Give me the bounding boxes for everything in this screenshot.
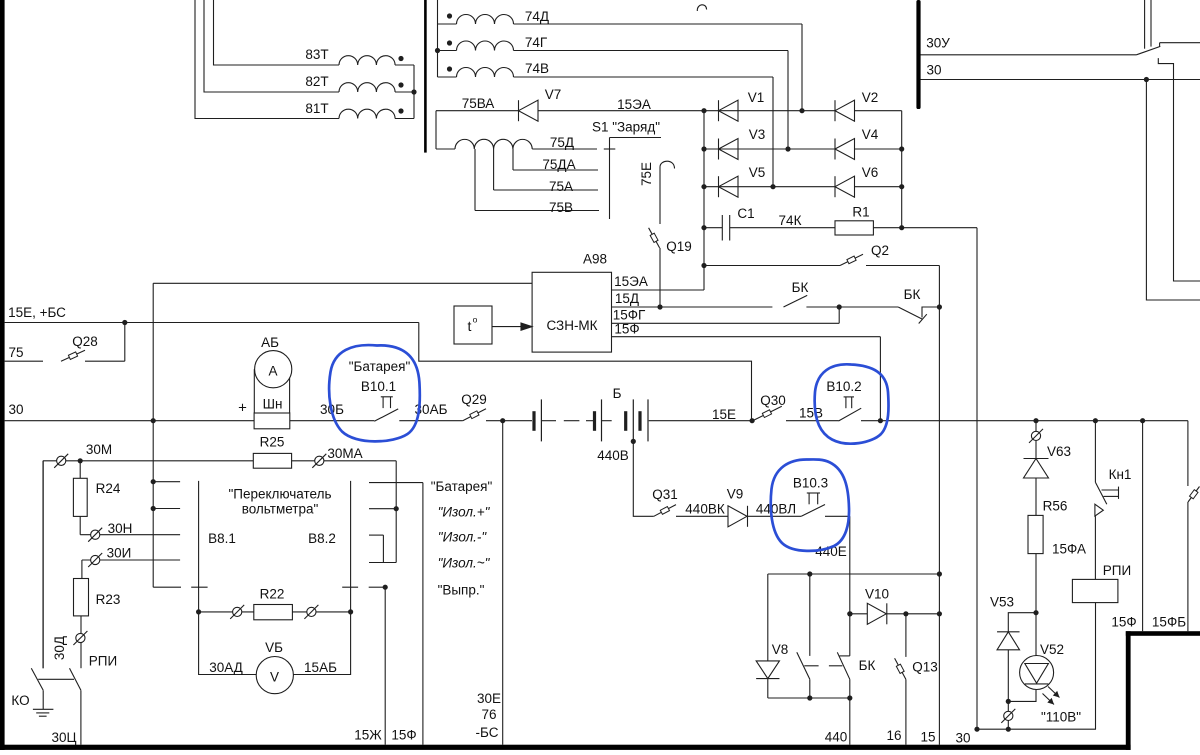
svg-text:Q29: Q29 xyxy=(461,392,487,407)
svg-text:15Ф: 15Ф xyxy=(614,322,639,337)
svg-text:30МА: 30МА xyxy=(327,446,362,461)
svg-text:83Т: 83Т xyxy=(305,47,328,62)
svg-text:V6: V6 xyxy=(862,165,879,180)
svg-text:15В: 15В xyxy=(799,406,823,421)
svg-text:-БС: -БС xyxy=(476,725,499,740)
svg-text:30М: 30М xyxy=(86,442,112,457)
svg-text:30Н: 30Н xyxy=(108,521,133,536)
svg-text:V7: V7 xyxy=(545,87,562,102)
svg-text:15Е: 15Е xyxy=(712,407,736,422)
svg-text:R24: R24 xyxy=(96,481,121,496)
svg-text:А98: А98 xyxy=(583,252,607,267)
svg-text:74К: 74К xyxy=(779,213,802,228)
svg-text:V8: V8 xyxy=(772,642,789,657)
svg-text:440ВК: 440ВК xyxy=(685,502,725,517)
svg-text:В10.2: В10.2 xyxy=(826,379,861,394)
svg-text:Q19: Q19 xyxy=(666,239,692,254)
svg-text:Q28: Q28 xyxy=(72,334,98,349)
svg-text:Q13: Q13 xyxy=(912,660,938,675)
svg-text:440ВЛ: 440ВЛ xyxy=(756,502,796,517)
svg-text:V52: V52 xyxy=(1040,642,1064,657)
svg-text:"Изол.~": "Изол.~" xyxy=(438,556,491,571)
svg-text:15Ф: 15Ф xyxy=(391,728,416,743)
svg-text:В10.3: В10.3 xyxy=(793,476,828,491)
svg-text:БК: БК xyxy=(904,287,921,302)
svg-text:30И: 30И xyxy=(107,546,132,561)
svg-text:"Выпр.": "Выпр." xyxy=(438,583,485,598)
svg-text:75Д: 75Д xyxy=(550,135,574,150)
svg-text:R23: R23 xyxy=(96,592,121,607)
svg-text:75: 75 xyxy=(8,345,23,360)
svg-text:30У: 30У xyxy=(926,36,950,51)
svg-text:В10.1: В10.1 xyxy=(361,379,396,394)
svg-text:30Ц: 30Ц xyxy=(51,730,76,745)
svg-text:16: 16 xyxy=(886,728,901,743)
svg-text:R22: R22 xyxy=(260,586,285,601)
svg-text:S1 "Заряд": S1 "Заряд" xyxy=(592,120,660,135)
svg-text:R25: R25 xyxy=(260,435,285,450)
svg-text:"Батарея": "Батарея" xyxy=(431,479,493,494)
svg-text:75А: 75А xyxy=(549,179,573,194)
svg-text:o: o xyxy=(473,315,478,325)
svg-text:В8.1: В8.1 xyxy=(208,531,236,546)
svg-text:440: 440 xyxy=(825,730,848,745)
svg-text:Q30: Q30 xyxy=(760,393,786,408)
svg-text:75ВА: 75ВА xyxy=(462,96,495,111)
svg-text:75Е: 75Е xyxy=(639,162,654,186)
svg-text:440В: 440В xyxy=(597,448,629,463)
svg-text:V63: V63 xyxy=(1047,444,1071,459)
svg-text:15АБ: 15АБ xyxy=(304,660,337,675)
svg-text:Q2: Q2 xyxy=(871,243,889,258)
svg-text:А: А xyxy=(268,364,277,379)
svg-text:"110В": "110В" xyxy=(1041,710,1081,725)
svg-text:30Е: 30Е xyxy=(477,691,501,706)
svg-text:Кн1: Кн1 xyxy=(1109,467,1132,482)
svg-text:VБ: VБ xyxy=(265,640,283,655)
svg-text:Б: Б xyxy=(613,386,622,401)
svg-text:30АД: 30АД xyxy=(209,660,243,675)
svg-text:82Т: 82Т xyxy=(305,74,328,89)
svg-text:15ЭА: 15ЭА xyxy=(614,274,648,289)
svg-text:V2: V2 xyxy=(862,90,879,105)
svg-text:V9: V9 xyxy=(727,487,744,502)
svg-text:30: 30 xyxy=(955,731,970,746)
svg-text:Шн: Шн xyxy=(263,397,283,412)
svg-text:15Е, +БС: 15Е, +БС xyxy=(8,305,66,320)
svg-text:"Изол.-": "Изол.-" xyxy=(438,530,488,545)
svg-text:"Изол.+": "Изол.+" xyxy=(438,505,491,520)
svg-text:"Переключатель: "Переключатель xyxy=(228,486,331,501)
svg-text:74Г: 74Г xyxy=(525,35,548,50)
svg-text:V5: V5 xyxy=(749,165,766,180)
svg-text:30: 30 xyxy=(926,63,941,78)
svg-text:15ФБ: 15ФБ xyxy=(1152,615,1186,630)
svg-text:75В: 75В xyxy=(549,200,573,215)
svg-text:БК: БК xyxy=(792,280,809,295)
svg-text:"Батарея": "Батарея" xyxy=(349,359,411,374)
svg-text:КО: КО xyxy=(11,693,29,708)
svg-text:R1: R1 xyxy=(852,205,869,220)
svg-text:вольтметра": вольтметра" xyxy=(242,501,319,516)
svg-text:15ФГ: 15ФГ xyxy=(613,308,646,323)
svg-text:t: t xyxy=(468,318,472,334)
svg-text:15Д: 15Д xyxy=(615,291,639,306)
svg-text:V3: V3 xyxy=(749,127,766,142)
svg-text:РПИ: РПИ xyxy=(1103,563,1131,578)
svg-text:15: 15 xyxy=(920,730,935,745)
svg-text:R56: R56 xyxy=(1043,499,1068,514)
svg-text:81Т: 81Т xyxy=(305,101,328,116)
svg-text:V4: V4 xyxy=(862,127,879,142)
svg-text:V: V xyxy=(270,670,279,685)
svg-text:76: 76 xyxy=(481,707,496,722)
svg-text:Q31: Q31 xyxy=(652,487,678,502)
svg-text:74В: 74В xyxy=(525,61,549,76)
svg-text:15ЭА: 15ЭА xyxy=(617,97,651,112)
svg-text:30Д: 30Д xyxy=(52,636,67,660)
svg-text:15Ф: 15Ф xyxy=(1111,615,1136,630)
svg-text:30: 30 xyxy=(8,402,23,417)
svg-text:БК: БК xyxy=(859,658,876,673)
svg-text:15ФА: 15ФА xyxy=(1052,542,1086,557)
svg-text:V1: V1 xyxy=(748,90,765,105)
svg-text:74Д: 74Д xyxy=(525,9,549,24)
svg-text:15Ж: 15Ж xyxy=(354,728,382,743)
svg-text:+: + xyxy=(238,400,247,417)
svg-text:В8.2: В8.2 xyxy=(308,531,336,546)
svg-text:СЗН-МК: СЗН-МК xyxy=(546,318,597,333)
svg-text:РПИ: РПИ xyxy=(89,653,117,668)
svg-text:C1: C1 xyxy=(737,206,754,221)
svg-text:75ДА: 75ДА xyxy=(542,157,575,172)
svg-text:АБ: АБ xyxy=(261,335,279,350)
svg-text:V10: V10 xyxy=(865,587,889,602)
svg-text:V53: V53 xyxy=(990,595,1014,610)
